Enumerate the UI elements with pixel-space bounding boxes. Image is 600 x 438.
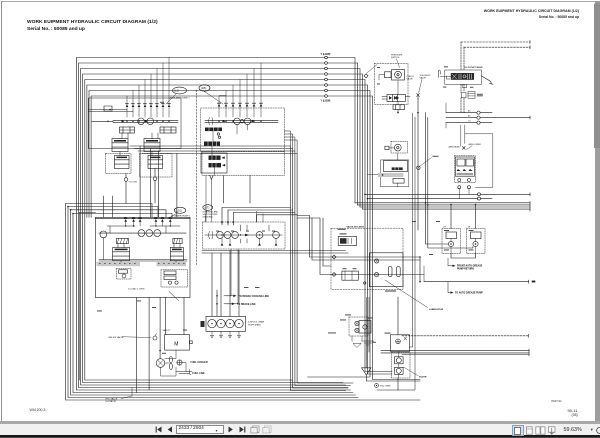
relief stack A1 [112, 139, 128, 152]
svg-text:(L2): (L2) [174, 89, 179, 93]
svg-text:VALVE: VALVE [407, 78, 414, 81]
footer model number WA1200-3 [30, 408, 46, 412]
relief X valve [417, 94, 420, 99]
svg-text:FUEL COOLER: FUEL COOLER [191, 361, 208, 364]
sub block A1 [106, 154, 132, 182]
gear pump bank [206, 316, 246, 331]
loader valve top rail [96, 218, 191, 220]
scrollbar thumb [594, 3, 600, 148]
valve stg assy box [331, 226, 403, 290]
steering shaft [205, 234, 282, 236]
label check valve [407, 76, 415, 81]
tank drain B [210, 176, 213, 180]
shaft arrow [245, 234, 249, 237]
svg-text:HL OUTLET VALVE: HL OUTLET VALVE [465, 66, 484, 69]
pump A valve body right [160, 127, 176, 133]
arm bottom wire 1 [365, 193, 530, 196]
solenoid block B1 [205, 128, 222, 132]
wire steering riser 3 [233, 213, 295, 226]
assembly M inner rails [99, 226, 187, 261]
title main top-left line 2 [27, 27, 85, 32]
steering box inner ticks [241, 225, 270, 243]
svg-text:LOADER PUMP 1: LOADER PUMP 1 [173, 214, 191, 217]
pump shaft M [99, 232, 186, 234]
svg-text:TO AUTO GREASE PUMP: TO AUTO GREASE PUMP [455, 292, 483, 295]
fan blades [165, 357, 173, 370]
coil spring right [173, 238, 182, 243]
drain port circle [375, 384, 392, 388]
coil spring left [117, 238, 129, 243]
unit D extra marks [382, 97, 410, 100]
outlet drain square [463, 84, 467, 87]
wire filter stack drop [397, 297, 399, 390]
outlet lever [482, 76, 493, 84]
cluster A stack links [120, 133, 158, 156]
wire lower bus 2 [202, 252, 348, 254]
toolbar zoom percent [564, 427, 582, 433]
wire right bus 4 [363, 208, 531, 210]
arm block ports [458, 179, 471, 189]
footer page number 90-11 [568, 408, 578, 413]
wire gear pump risers [212, 251, 239, 317]
wire steering branch 2 [297, 218, 420, 260]
wire right bus 1 [355, 202, 530, 204]
filter label [404, 367, 427, 379]
label gear pump [248, 321, 265, 327]
diamond fittings [332, 255, 336, 277]
manifold bar A [113, 120, 178, 122]
label steering pump lines [203, 211, 219, 219]
oil outlet label [444, 66, 483, 69]
fan links [161, 350, 187, 376]
sub box B [202, 152, 285, 176]
solenoid block B2 [204, 142, 220, 146]
toolbar background [0, 424, 600, 436]
micro labels unit C ports [377, 66, 380, 69]
wire B to steering drops [206, 176, 211, 223]
wire return dashed [402, 335, 529, 337]
svg-text:(1B): (1B) [201, 86, 206, 90]
leader solenoid [419, 79, 422, 93]
wire left feed 2 [68, 207, 358, 398]
wire dashed pilot drop 1 [460, 42, 462, 113]
steering pump circle 2 [224, 232, 231, 239]
wire triple bottom 2 [381, 352, 529, 354]
svg-text:FRONT AUTO GREASE: FRONT AUTO GREASE [457, 264, 483, 267]
manifold junction dots [125, 121, 262, 227]
svg-text:Y (LOW): Y (LOW) [129, 181, 138, 183]
wire valve feed drops B [224, 176, 251, 204]
toolbar next-page button [227, 425, 249, 434]
svg-text:1/8: 1/8 [468, 226, 472, 228]
toolbar scroll-page icon [547, 426, 557, 435]
page bottom edge gray band [0, 421, 600, 423]
fuel tank bracket [176, 372, 192, 374]
port wire risers [446, 103, 465, 146]
svg-text:VALVE: VALVE [420, 76, 427, 79]
steering pump box [203, 222, 286, 249]
steering pump circle 1 [217, 232, 224, 239]
manifold B arrows [223, 120, 255, 123]
fan pump unit box [385, 141, 408, 153]
wire center bundle 4 [142, 154, 353, 384]
wire left feed 3 [71, 210, 356, 395]
lubricator leader [385, 280, 444, 311]
label arm lower [467, 143, 482, 150]
wire top bus 2 [79, 63, 358, 388]
toolbar magnifier icon clipped [595, 426, 600, 436]
svg-text:(5-STACK): (5-STACK) [106, 400, 117, 403]
spool stack left [113, 248, 130, 261]
micro label near L2 leader [160, 101, 164, 104]
gray bar right [157, 262, 187, 266]
svg-text:4-SPOOL GEAR: 4-SPOOL GEAR [248, 321, 265, 324]
wire left feed 1 [66, 204, 421, 401]
gray bar left [97, 262, 141, 266]
check valve row M [124, 219, 171, 226]
micro labels check row M [124, 217, 127, 220]
window top border [1, 1, 596, 2]
toolbar page input text [179, 426, 204, 431]
oval tag L2 [166, 87, 187, 104]
cross fitting [177, 360, 182, 365]
svg-text:Y (LOW): Y (LOW) [321, 53, 331, 56]
EPC label [106, 388, 133, 404]
micro labels steering row [216, 230, 219, 233]
svg-text:ARM LOWER: ARM LOWER [469, 143, 482, 146]
manifold A arrows [122, 120, 148, 123]
wire top bus 5 [85, 80, 392, 381]
wire top bus 3 [81, 69, 360, 386]
svg-text:A3: A3 [468, 110, 470, 113]
svg-text:ARM RAISE: ARM RAISE [449, 145, 461, 148]
wire top bus 8 [91, 96, 420, 380]
wire steering riser 4 [257, 215, 298, 222]
toolbar zoom dropdown tick [591, 427, 593, 433]
wire left feed 4 [73, 214, 353, 393]
dashed separator column [196, 90, 198, 265]
arm block loop [465, 134, 493, 188]
charge pump links [397, 81, 399, 105]
micro labels above check row A [125, 102, 128, 105]
assembly M diagonal [169, 292, 179, 301]
relief sub box right [161, 270, 188, 287]
footer page number (35) [572, 413, 578, 417]
pump M circle 3 [154, 230, 161, 237]
port wire B3 [446, 116, 530, 119]
brake feed wires [227, 249, 239, 304]
PPC manifold A outline [89, 98, 182, 149]
arm valve block [454, 156, 475, 183]
right frame label ticks [423, 266, 425, 282]
toolbar single-page icon selected [512, 425, 524, 436]
node circles on top bus at x=326 [325, 56, 328, 97]
svg-text:SWITCH: SWITCH [391, 57, 400, 59]
window left border [1, 1, 2, 422]
gear pump drains [211, 331, 241, 338]
svg-text:PUMP RETURN: PUMP RETURN [457, 269, 474, 271]
bottom dark strip [0, 435, 600, 437]
steering drains [221, 238, 278, 245]
micro label accumulator [385, 291, 396, 292]
leader pressure switch [397, 59, 400, 68]
oval tag LT [203, 205, 213, 222]
solenoid manifold D [387, 94, 405, 101]
filter unit dashed [392, 352, 411, 379]
assembly M inner stubs [103, 226, 180, 262]
svg-text:AUXILIARY PUMP 1: AUXILIARY PUMP 1 [170, 97, 191, 100]
outlet valve left hook [438, 70, 451, 79]
wire steering branch 1 [297, 216, 420, 282]
grease unit 2 [467, 226, 486, 253]
arm bottom wire 2 [368, 197, 493, 200]
svg-text:LUBRICATOR: LUBRICATOR [429, 308, 444, 311]
tank triangle [362, 361, 372, 376]
pressure diamond [364, 65, 377, 79]
toolbar first-page button [153, 425, 175, 434]
wire bundle feeds from manifold B [285, 131, 298, 154]
header top-right line 2 [379, 15, 579, 19]
small unit left of accumulator [359, 321, 371, 337]
wire grease unit returns [451, 254, 476, 259]
wire valve feed drops A [126, 181, 155, 203]
steering pump circle 5 [273, 232, 280, 239]
outlet valve box [445, 70, 482, 84]
svg-text:(L01): (L01) [176, 208, 182, 212]
grease supply end label [532, 281, 535, 282]
solenoid block B3 [209, 156, 225, 160]
toolbar next-view icon [262, 425, 272, 434]
wire triple bottom 3 [402, 354, 529, 356]
check valve row B [218, 63, 263, 117]
arm X valve [463, 147, 466, 150]
svg-text:Y (LOW): Y (LOW) [321, 100, 331, 103]
pump B small circle [240, 120, 243, 123]
micro labels grease units [444, 229, 449, 232]
label pressure switch block [391, 54, 403, 59]
tank return drop pair [366, 298, 369, 361]
footer small part note [551, 400, 562, 403]
grease pump arrow [448, 282, 483, 295]
fan valve port node [417, 156, 439, 170]
wire tank bottom run [366, 375, 420, 381]
title main top-left line 1 [27, 20, 158, 25]
wire steering riser 1 [222, 208, 291, 226]
steering pump circle 4 [256, 232, 263, 239]
grease unit 1 [442, 226, 461, 253]
pump A circle 2 [147, 118, 154, 125]
wire assembly M drops [136, 298, 184, 393]
fan circle [156, 359, 165, 368]
wide tank bracket [362, 341, 374, 345]
wire dashed pilot top 2 [464, 46, 530, 48]
pump A valve body left [120, 127, 135, 133]
wire grease supply [424, 281, 529, 283]
wire top bus 6 [87, 85, 392, 374]
svg-text:TO BRAKE COOLING LINE: TO BRAKE COOLING LINE [239, 295, 270, 298]
wire center bundle 2 [134, 149, 348, 389]
wire right bus 2 [358, 204, 531, 206]
wire dashed pilot top 1 [461, 41, 530, 43]
wire right feed verticals [377, 113, 415, 390]
svg-text:FUEL LINE: FUEL LINE [192, 372, 205, 375]
spool stack right [170, 248, 183, 261]
wire top bus 7 [89, 91, 370, 378]
steering inner dots [221, 234, 260, 235]
enclosure lower left [79, 213, 95, 380]
grease return arrow [448, 258, 483, 271]
toolbar page input box [176, 425, 224, 433]
svg-text:TO BRAKE LINE: TO BRAKE LINE [237, 303, 256, 306]
oval tag 1B [199, 85, 223, 104]
tank sub-circuit [328, 315, 368, 348]
wire top bus 4 [83, 74, 363, 383]
charge pump unit box [375, 64, 409, 105]
micro labels cylinder ports [443, 86, 446, 89]
header top-right line 1 [379, 9, 579, 13]
svg-text:EPC VALVE: EPC VALVE [106, 397, 118, 400]
micro label connector [219, 95, 226, 96]
solenoid sub box [393, 105, 405, 110]
PPC manifold B outline [201, 108, 285, 152]
wire top bus 1 [76, 58, 355, 391]
svg-text:M: M [174, 341, 178, 347]
svg-text:RELIEF VALVE: RELIEF VALVE [109, 336, 125, 339]
svg-text:X-LOAD ◎ SPIN: X-LOAD ◎ SPIN [128, 287, 145, 290]
NC valve block [338, 233, 356, 245]
svg-text:FILTER: FILTER [419, 377, 427, 379]
wire dashed pilot drop 2 [463, 47, 465, 112]
toolbar page input dropdown tick [216, 428, 218, 433]
pump M tank circle [100, 231, 107, 238]
manifold bar B [205, 120, 278, 122]
brake cooling arrow [224, 295, 269, 298]
pump B circle 2 [244, 118, 251, 125]
pump A circle 1 [138, 118, 145, 125]
port wire A3 [446, 111, 492, 114]
small circles B [217, 133, 221, 139]
pump M circle 2 [146, 230, 153, 237]
toolbar prev-view icon [250, 425, 260, 434]
svg-text:(TANDEM): (TANDEM) [203, 216, 213, 219]
svg-text:HYD. TANK: HYD. TANK [380, 385, 391, 388]
pump M circle 1 [138, 230, 145, 237]
wire solenoid drop [398, 99, 418, 231]
steering pump circle 3 [232, 232, 239, 239]
relief valve small [109, 334, 158, 341]
pump bank left connector [201, 321, 205, 327]
micro port letters gray bar left [99, 262, 101, 265]
wire steering branch 3 [312, 218, 424, 275]
micro labels above check row B [217, 102, 221, 105]
brake line arrow [224, 303, 256, 306]
label solenoid [420, 75, 431, 80]
accumulator inner box [364, 253, 404, 287]
outlet valve spool [451, 73, 474, 80]
manifold A feed lines [89, 110, 134, 112]
wire end ticks at right margin [529, 41, 531, 357]
wire assembly M risers [103, 146, 176, 217]
toolbar bookmark-page icon [525, 426, 534, 435]
micro port letters gray bar right [158, 262, 160, 265]
wire triple bottom 1 [381, 350, 529, 352]
port wire C3 [446, 121, 492, 124]
charge pump body [392, 70, 405, 81]
wire right bus 3 [360, 206, 530, 208]
filter unit top [391, 335, 410, 352]
fan motor box [165, 335, 193, 351]
relief sub box left [117, 269, 132, 280]
wire center bundle 3 [138, 151, 351, 386]
wire steering branch 4 [323, 218, 331, 266]
wire lower bus 1 [202, 250, 346, 252]
svg-text:1/8: 1/8 [443, 226, 447, 228]
breaker ports label [468, 110, 470, 123]
arm bottom links [459, 189, 469, 199]
wire steering riser 2 [228, 210, 293, 225]
loader control valve outline [96, 217, 191, 297]
solenoid group box B [201, 153, 227, 173]
wire grease unit feeds [426, 113, 476, 248]
coupling B [209, 118, 213, 126]
svg-text:PUMP (FAN): PUMP (FAN) [248, 323, 261, 326]
lower speck labels [97, 221, 440, 354]
oval tag L01 [170, 207, 186, 217]
filter pair [462, 92, 483, 99]
relief stack A2 [144, 139, 160, 152]
label fuel line [190, 370, 206, 376]
charge pump motor box [379, 72, 391, 80]
toolbar two-page icon [535, 426, 546, 435]
svg-text:(L/T): (L/T) [204, 207, 209, 210]
bottom edge lighter strip [0, 436, 600, 438]
manifold A left port [92, 106, 113, 121]
steering coupling [209, 231, 213, 239]
scrollbar track [595, 1, 600, 422]
sub block A2 [140, 154, 173, 181]
wire center bundle 1 [130, 146, 346, 391]
micro label filter top [385, 332, 391, 335]
wire brake line link [216, 290, 218, 316]
fan valve block [368, 153, 409, 187]
stg lower valve block [342, 268, 358, 280]
solenoid block B4 [209, 163, 226, 167]
check valve row A [126, 58, 171, 118]
micro label valve box [338, 228, 346, 231]
riser arrows [221, 222, 235, 225]
pump B circle 1 [234, 118, 241, 125]
svg-text:SAFETY: SAFETY [163, 329, 171, 332]
inner links B [212, 125, 248, 176]
steering risers [257, 211, 264, 222]
svg-text:VALVE STG ASSY: VALVE STG ASSY [347, 226, 365, 229]
